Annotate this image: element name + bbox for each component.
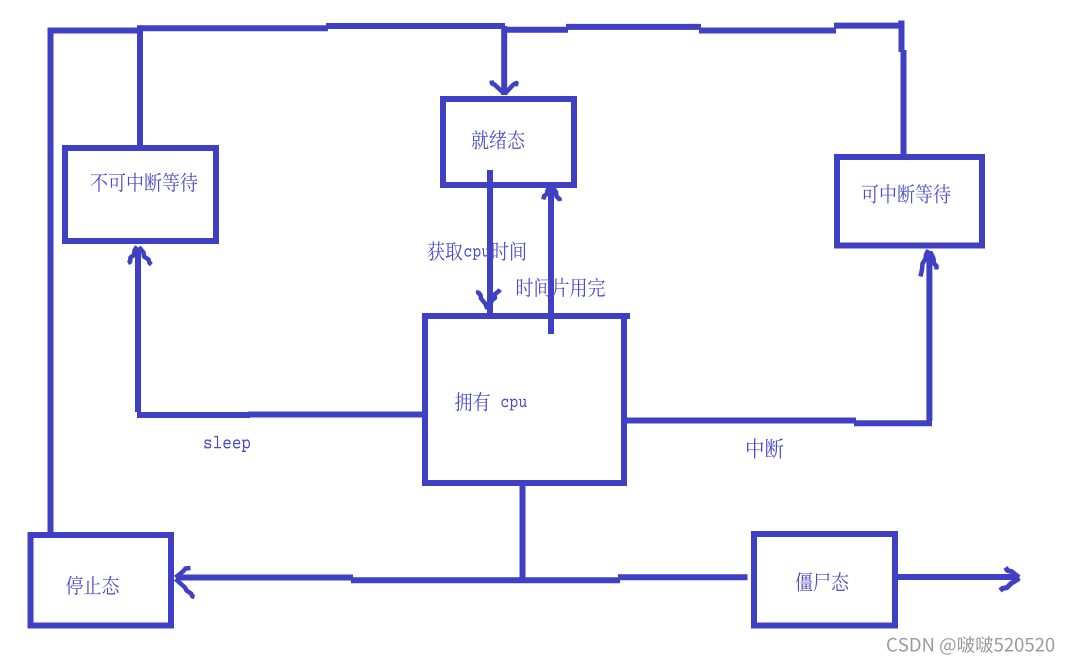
wire top to interruptible-wait box — [898, 21, 904, 158]
box has cpu — [422, 313, 630, 486]
arrow top into ready box — [492, 26, 517, 95]
wire interrupt: has-cpu box right to below interruptible-wait — [624, 251, 932, 423]
label has cpu text — [455, 392, 527, 411]
arrowhead right output — [1000, 568, 1019, 591]
label interrupt — [747, 438, 783, 458]
wire top to uninterruptible-wait box — [137, 25, 143, 150]
box stopped state — [31, 535, 172, 626]
box uninterruptible wait — [65, 148, 216, 241]
label zombie state text — [796, 572, 849, 591]
wire has-cpu down to bottom bus — [520, 484, 526, 580]
box zombie state — [754, 534, 895, 626]
label time slice used up — [517, 278, 605, 297]
wire zombie box to right arrow — [898, 574, 1015, 580]
arrowhead left into stopped box — [176, 568, 195, 597]
label get cpu time — [428, 241, 526, 260]
wire top bus — [48, 26, 904, 31]
label sleep — [204, 436, 250, 452]
label interruptible wait text — [862, 184, 951, 203]
arrowhead up into uninterruptible-wait box — [128, 247, 152, 265]
arrow get-cpu-time: ready box down to has-cpu box — [478, 170, 500, 313]
wire bottom bus to stopped box (left) and zombie box (right) — [177, 577, 748, 580]
box ready state — [443, 99, 574, 185]
label ready state text — [472, 130, 525, 149]
label stopped state text — [66, 576, 119, 595]
wire left vertical — [48, 28, 54, 535]
watermark CSDN — [887, 636, 1054, 655]
arrow time-slice-used: has-cpu box up to ready box — [544, 184, 561, 334]
wire sleep: has-cpu box left to below uninterruptible-wait — [137, 248, 427, 415]
box interruptible wait — [837, 157, 982, 246]
label uninterruptible wait text — [91, 173, 198, 192]
arrowhead up into interruptible-wait box — [921, 250, 937, 277]
